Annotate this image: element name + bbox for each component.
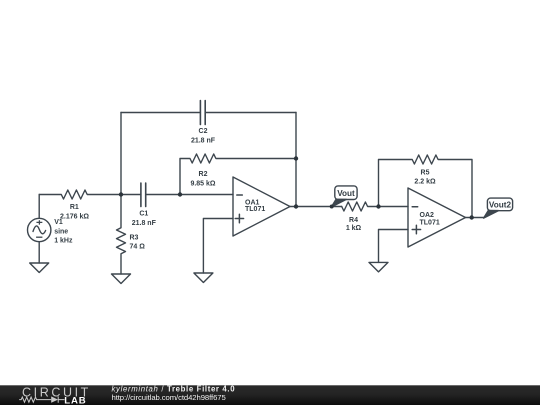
svg-text:R1: R1 [70, 204, 79, 211]
ground V1 [30, 263, 49, 273]
label OA2 [420, 212, 440, 227]
op-amp OA2 [408, 188, 466, 247]
wire V1 bottom [38, 242, 40, 263]
logo resistor-diode line [19, 396, 64, 402]
resistor R1 [39, 190, 121, 199]
svg-text:C2: C2 [199, 128, 208, 135]
svg-text:http://circuitlab.com/ctd42h98: http://circuitlab.com/ctd42h98ff675 [112, 393, 226, 402]
resistor R4 [342, 202, 408, 211]
ground OA1 [194, 273, 213, 283]
svg-text:V1: V1 [54, 219, 63, 226]
wire node to C2 [120, 113, 122, 195]
svg-text:R2: R2 [199, 171, 208, 178]
wire OA1 minus input [180, 194, 233, 196]
wire OA1 output [290, 206, 342, 208]
svg-text:1 kHz: 1 kHz [54, 238, 73, 245]
label R3 [130, 234, 146, 250]
svg-text:1 kΩ: 1 kΩ [346, 225, 362, 232]
resistor R5 [379, 155, 473, 218]
svg-text:TL071: TL071 [420, 220, 440, 227]
svg-text:2.2 kΩ: 2.2 kΩ [414, 178, 436, 185]
svg-text:sine: sine [54, 228, 68, 235]
node R4/R5/OA2- junction [376, 204, 380, 208]
svg-text:21.8 nF: 21.8 nF [191, 137, 216, 144]
svg-text:OA2: OA2 [420, 212, 435, 219]
label C1 [132, 211, 157, 227]
net flag Vout2 [484, 198, 513, 218]
capacitor C2 [121, 101, 296, 125]
label OA1 [245, 199, 265, 213]
net flag Vout [331, 186, 357, 207]
node Vout anchor [330, 205, 334, 209]
svg-text:R4: R4 [349, 217, 358, 224]
label R2 [190, 171, 215, 188]
capacitor C1 [121, 183, 180, 207]
svg-text:Vout2: Vout2 [489, 201, 512, 210]
node R2 right junction [294, 156, 298, 160]
wire V1 top [38, 195, 40, 219]
svg-text:TL071: TL071 [245, 206, 265, 213]
node OA2 output [470, 215, 474, 219]
resistor R3 [117, 195, 126, 275]
footer bar [0, 384, 540, 405]
svg-text:9.85 kΩ: 9.85 kΩ [190, 180, 215, 187]
node C1/R2/OA1- junction [178, 192, 182, 196]
label C2 [191, 128, 216, 144]
wire OA2 plus input to ground [379, 230, 409, 263]
resistor R2 [180, 154, 296, 195]
ground R3 [112, 274, 131, 284]
svg-text:21.8 nF: 21.8 nF [132, 220, 157, 227]
label R1 [60, 204, 89, 220]
wire OA1 plus input to ground [203, 219, 233, 274]
svg-text:2.176 kΩ: 2.176 kΩ [60, 214, 89, 221]
label R4 [346, 217, 362, 232]
svg-text:Vout: Vout [337, 189, 355, 198]
label V1 [54, 219, 73, 244]
svg-text:R3: R3 [130, 234, 139, 241]
wire right vertical C2/R2 to OA1 output [295, 113, 297, 207]
svg-text:LAB: LAB [64, 395, 86, 405]
svg-text:R5: R5 [421, 169, 430, 176]
label R5 [414, 169, 436, 185]
ground OA2 [369, 262, 388, 272]
voltage source V1 [28, 218, 51, 241]
svg-text:C1: C1 [139, 211, 148, 218]
svg-text:74 Ω: 74 Ω [130, 244, 146, 251]
node OA1 output [294, 204, 298, 208]
op-amp OA1 [233, 177, 290, 236]
wire OA2 output [466, 217, 485, 219]
node R1/C1/C2/R3 junction [119, 192, 123, 196]
